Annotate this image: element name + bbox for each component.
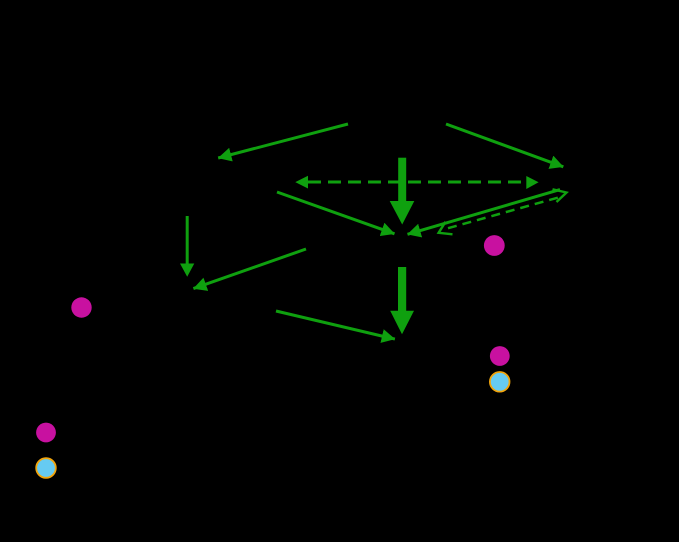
arrow from top node to left node L1 [218,124,348,158]
thick arrow T2 center node C down to node B : shaft [398,267,406,312]
thin vertical arrow head [180,264,194,277]
cyan dot with orange ring right of node B [490,372,510,392]
solid arrow from right node R to center node C [408,190,561,235]
magenta dot right of node B [490,346,510,366]
dashed double-headed arrow between mid-left node and right node : dashes [308,181,527,184]
magenta dot left of node L3 [71,297,91,317]
thick arrow T1 head [390,201,415,225]
arrow from node L3 to bottom node B [276,311,395,339]
magenta dot bottom-left legend [36,423,56,443]
thick arrow T2 head [390,311,414,334]
dashed arrow right head [526,176,538,189]
arrow from mid-left node to center node C [277,192,395,234]
arrow from top node to right node R [446,124,563,167]
thick arrow T1 top node to center node C : shaft [398,158,406,203]
dashed return line C to R (parallel) [448,197,561,228]
dashed arrow left head [295,176,308,189]
open chevron head at right node end [553,189,567,202]
open chevron head at center end of dashed return line [439,222,453,235]
arrow from center area down-left to node L3 [193,249,306,289]
thin vertical arrow L1 down to L3 [186,216,189,264]
cyan dot with orange ring bottom-left legend [36,458,56,478]
magenta dot below double line arrows [484,235,505,256]
